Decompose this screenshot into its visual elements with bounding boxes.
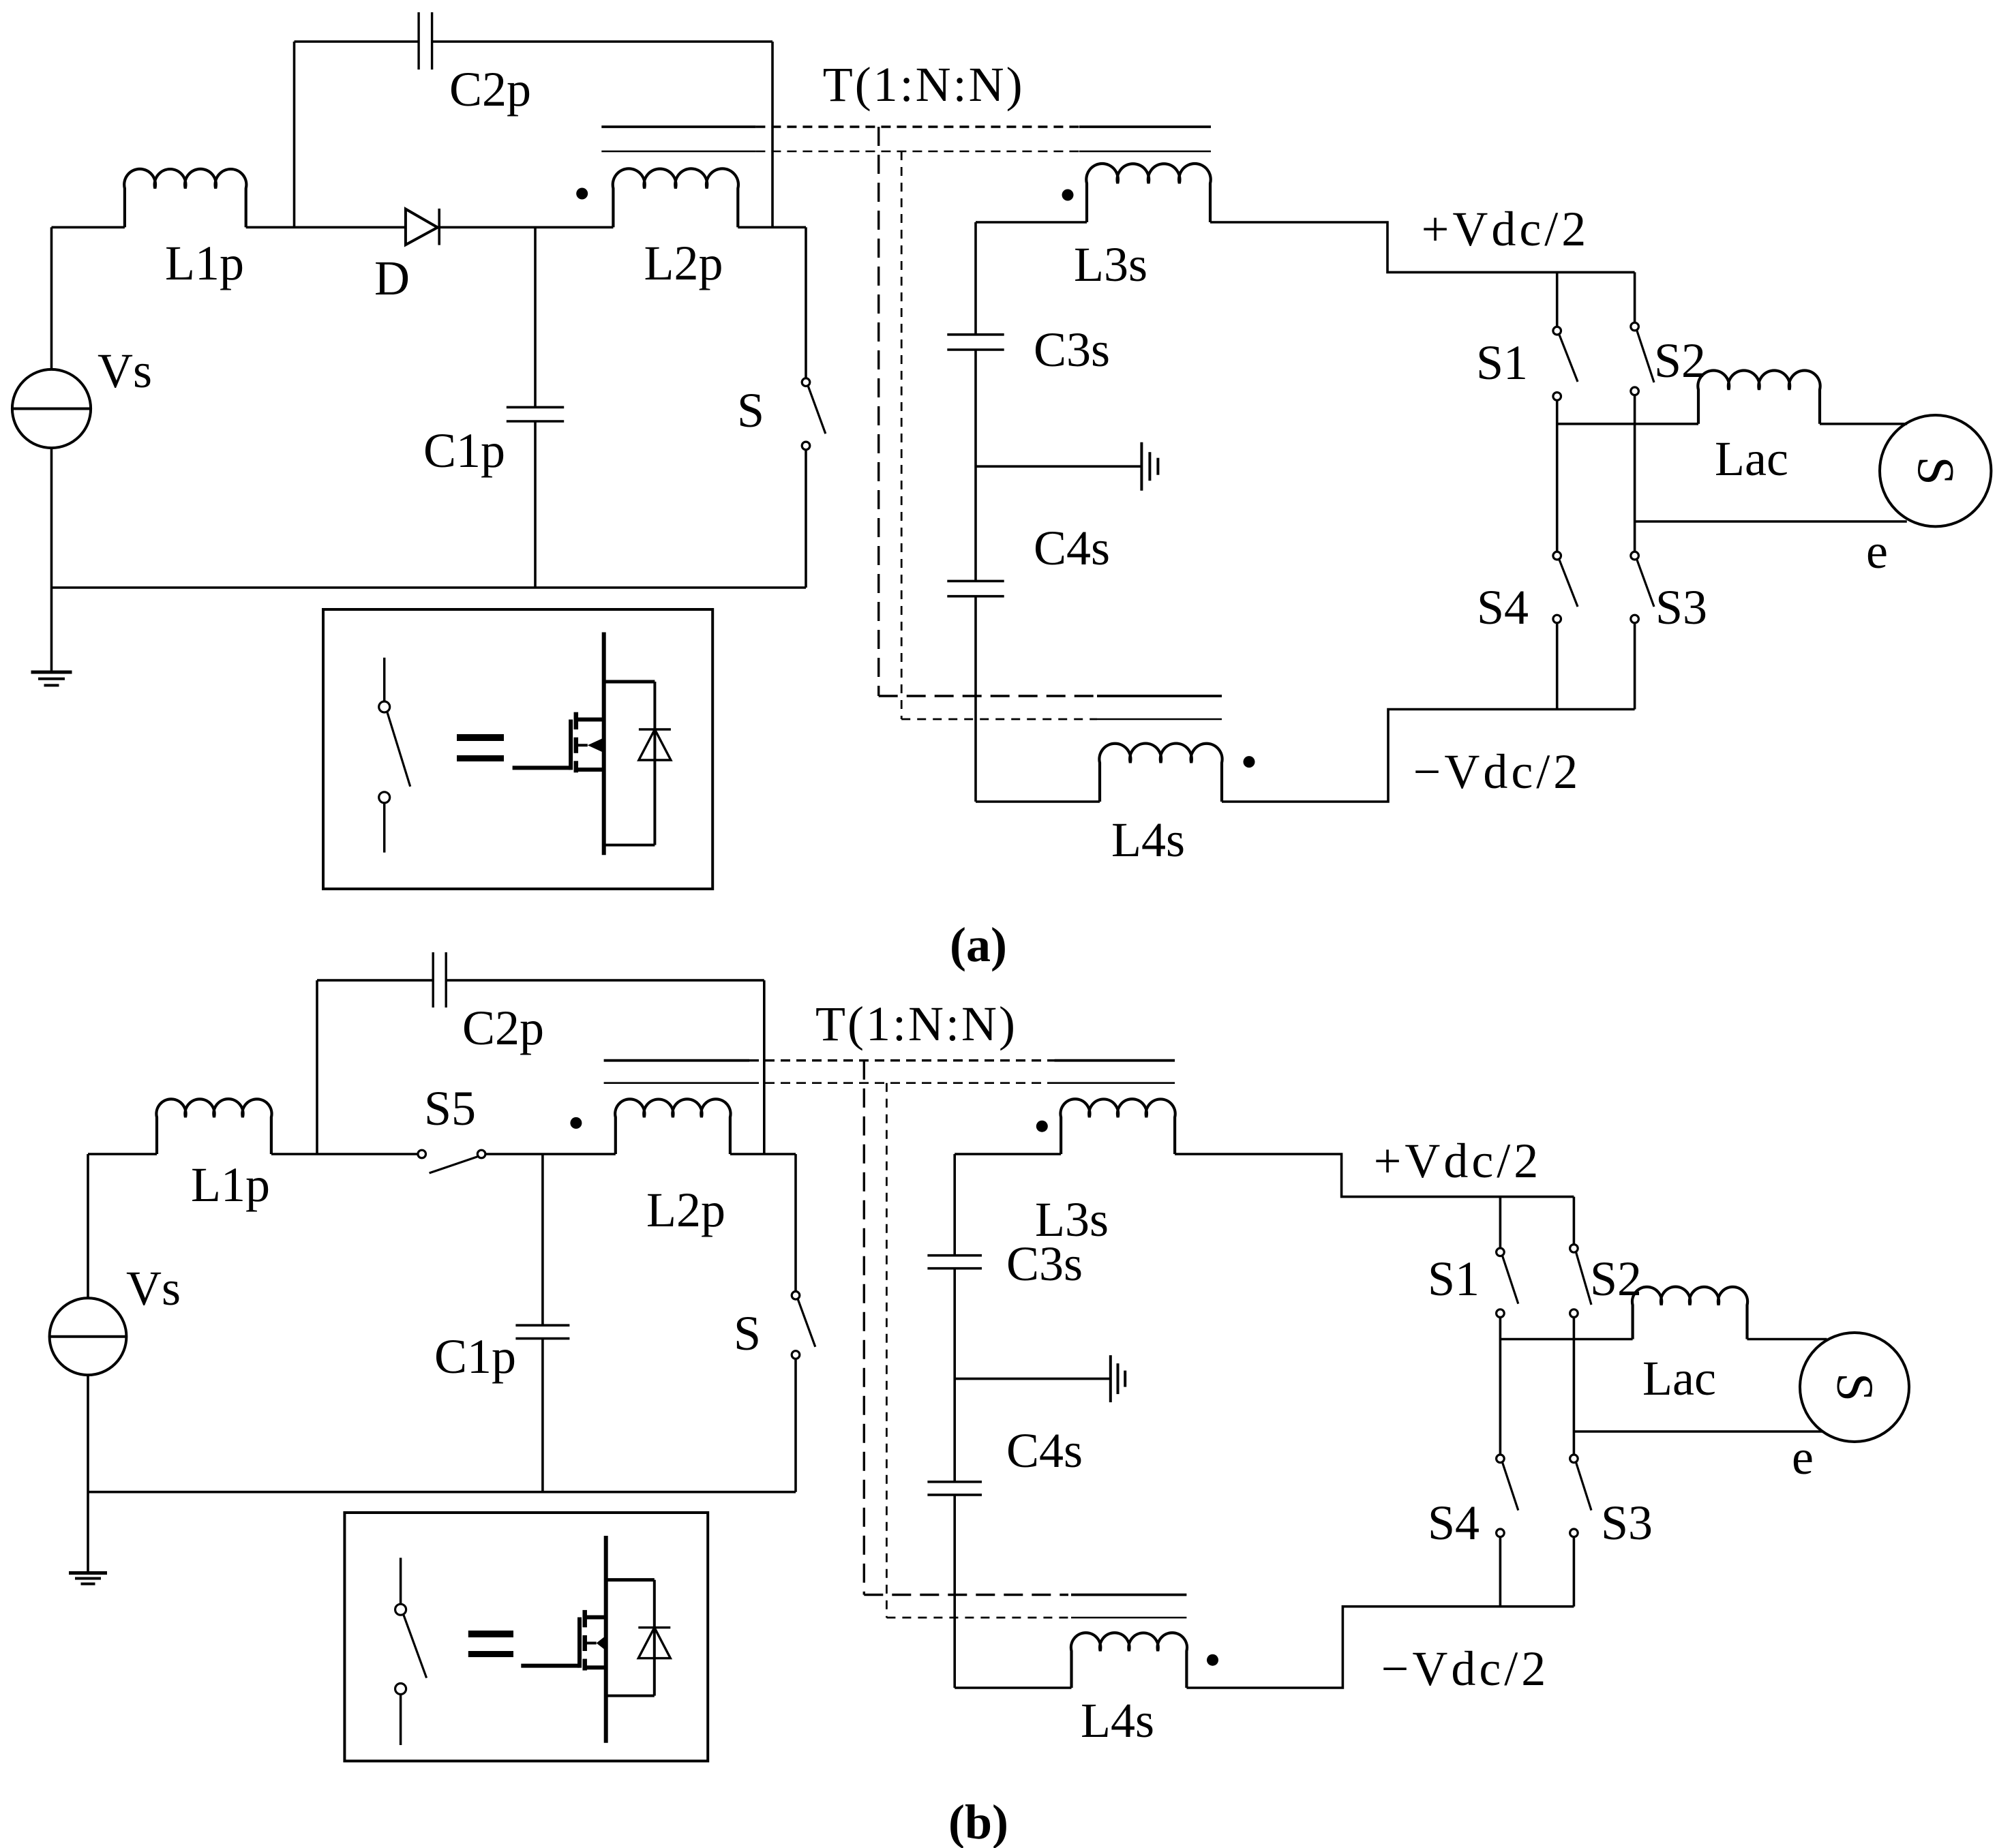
wire: L2p to S corner (b) — [730, 1153, 796, 1155]
wire: C2p branch up (b) — [316, 980, 318, 1154]
label S5 (b) — [424, 1081, 476, 1136]
wire: Vs branch top (b) — [87, 1154, 89, 1299]
capacitor C1p (b) — [515, 1325, 569, 1338]
label C3s (a) — [1034, 322, 1110, 377]
svg-text:+Vdc/2: +Vdc/2 — [1374, 1134, 1542, 1188]
svg-text:S: S — [737, 383, 764, 438]
label L1p (b) — [191, 1157, 270, 1212]
mosfet symbol (b) — [521, 1536, 605, 1743]
wire: Lac to source e (a) — [1820, 423, 1907, 425]
svg-text:−Vdc/2: −Vdc/2 — [1413, 744, 1582, 799]
capacitor C3s (b) — [927, 1256, 982, 1269]
equals sign (a) — [457, 734, 504, 761]
svg-text:C2p: C2p — [462, 1001, 544, 1055]
wire: left to L1p (a) — [52, 226, 125, 229]
label C1p (b) — [434, 1329, 516, 1384]
svg-text:(b): (b) — [948, 1795, 1008, 1848]
inductor Lac (a) — [1698, 370, 1820, 423]
capacitor C1p (a) — [507, 407, 564, 421]
body diode (b) — [606, 1580, 671, 1696]
wire: L1p to diode (a) — [246, 226, 406, 229]
svg-text:C3s: C3s — [1006, 1237, 1083, 1291]
wire: C3s to C4s (b) — [953, 1269, 956, 1482]
label Vs (a) — [97, 344, 152, 398]
svg-text:L2p: L2p — [644, 236, 723, 290]
inductor L4s (a) — [1099, 744, 1222, 802]
source e circle (b) — [1800, 1333, 1909, 1442]
wire: bottom to L4s (b) — [955, 1686, 1071, 1689]
dot: L4s polarity (a) — [1244, 756, 1255, 768]
label Lac (a) — [1715, 431, 1788, 486]
legend switch symbol (b) — [395, 1558, 427, 1745]
dot: L3s polarity (a) — [1062, 190, 1074, 201]
source Vs (a) — [12, 369, 91, 448]
coupling dashed vertical 1 (b) — [863, 1061, 865, 1595]
label L4s (b) — [1081, 1693, 1154, 1748]
wire: C3s to C4s (a) — [974, 350, 977, 581]
transformer core line lower (b) — [604, 1082, 1175, 1084]
L4s core line lower (b) — [886, 1617, 1186, 1619]
legend switch symbol (a) — [379, 658, 410, 853]
coupling dashed vertical 2 (a) — [901, 151, 903, 719]
label (a) — [950, 918, 1007, 972]
wire: bottom to L4s (a) — [976, 800, 1100, 803]
svg-text:e: e — [1866, 524, 1888, 579]
wire: ground stub (a) — [976, 465, 1141, 468]
label L4s (a) — [1111, 813, 1185, 867]
wire: C3s top to L3s (a) — [976, 221, 1087, 224]
switch S5 (b) — [418, 1150, 485, 1173]
L4s core line upper (a) — [879, 695, 1222, 697]
wire: diode to L2p (a) — [439, 226, 613, 229]
wire: C2p rail right (b) — [446, 979, 764, 982]
wire: C2p rail left (a) — [295, 40, 419, 43]
ground (b) — [69, 1573, 107, 1584]
dot: L3s polarity (b) — [1036, 1121, 1048, 1132]
svg-text:S3: S3 — [1601, 1496, 1653, 1550]
wire: C3s branch (a) — [974, 222, 977, 335]
label L3s (a) — [1074, 237, 1147, 292]
label S (a) — [737, 383, 764, 438]
switch S4 (a) — [1553, 551, 1578, 709]
wire: Lac to source e (b) — [1747, 1338, 1827, 1341]
label C2p (b) — [462, 1001, 544, 1055]
inductor L3s (b) — [1060, 1099, 1175, 1154]
svg-text:D: D — [374, 251, 410, 305]
legend box (a) — [323, 609, 712, 889]
wire: S1 to S4 leg (a) — [1556, 400, 1559, 551]
dot: L2p polarity (b) — [570, 1117, 582, 1129]
svg-text:S4: S4 — [1477, 580, 1529, 635]
wire: S2 to S3 leg (b) — [1573, 1317, 1576, 1455]
label S2 (b) — [1590, 1252, 1642, 1306]
svg-text:S4: S4 — [1428, 1496, 1480, 1550]
label L2p (a) — [644, 236, 723, 290]
transformer core line lower (a) — [601, 151, 1211, 153]
wire: S1 to S4 leg (b) — [1499, 1317, 1502, 1455]
ground (secondary midpoint) (b) — [1111, 1355, 1125, 1402]
inductor L3s (a) — [1086, 164, 1210, 222]
capacitor C4s (a) — [947, 581, 1004, 596]
label S3 (b) — [1601, 1496, 1653, 1550]
coupling dashed vertical 2 (b) — [886, 1083, 888, 1618]
capacitor C4s (b) — [927, 1482, 982, 1495]
label L3s (b) — [1035, 1192, 1109, 1247]
label C2p (a) — [449, 62, 531, 117]
svg-text:Lac: Lac — [1715, 431, 1788, 486]
wire: C4s to bottom (b) — [953, 1495, 956, 1688]
wire: Vs branch top (a) — [50, 227, 53, 369]
switch S3 (a) — [1631, 551, 1654, 709]
label Vs (b) — [126, 1261, 181, 1316]
equals sign (b) — [468, 1631, 513, 1657]
coupling dashed vertical 1 (a) — [877, 127, 880, 696]
svg-text:L1p: L1p — [191, 1157, 270, 1212]
body diode (a) — [604, 682, 671, 845]
legend box (b) — [344, 1513, 708, 1761]
wire: e bottom to bridge (a) — [1635, 520, 1907, 523]
label S3 (a) — [1655, 580, 1707, 635]
inductor L1p (b) — [156, 1099, 271, 1154]
label +Vdc/2 (a) — [1422, 202, 1590, 256]
svg-text:L3s: L3s — [1074, 237, 1147, 292]
switch S2 (a) — [1631, 272, 1654, 395]
label +Vdc/2 (b) — [1374, 1134, 1542, 1188]
label L2p (b) — [646, 1183, 725, 1237]
label -Vdc/2 (b) — [1381, 1641, 1550, 1696]
label T(1:N:N) (a) — [823, 57, 1025, 112]
label e (b) — [1792, 1430, 1814, 1485]
svg-text:C2p: C2p — [449, 62, 531, 117]
wire: S2 to S3 leg (a) — [1634, 395, 1636, 552]
svg-text:T(1:N:N): T(1:N:N) — [823, 57, 1025, 112]
inductor Lac (b) — [1632, 1287, 1747, 1339]
wire: bottom rail (b) — [88, 1491, 796, 1494]
capacitor C1p branch wire top (a) — [534, 227, 537, 407]
transformer core line upper (b) — [604, 1059, 1175, 1062]
switch S (a) — [802, 227, 826, 588]
svg-text:−Vdc/2: −Vdc/2 — [1381, 1641, 1550, 1696]
label S4 (a) — [1477, 580, 1529, 635]
wire: ground stub (b) — [955, 1378, 1111, 1380]
svg-text:C4s: C4s — [1006, 1423, 1083, 1478]
capacitor C2p (b) — [433, 952, 446, 1008]
svg-text:Vs: Vs — [97, 344, 152, 398]
source e circle (a) — [1880, 415, 1991, 526]
wire: C1p to bottom (a) — [534, 421, 537, 588]
label -Vdc/2 (a) — [1413, 744, 1582, 799]
mosfet symbol (a) — [513, 633, 604, 855]
L4s core line lower (a) — [901, 718, 1222, 721]
label S4 (b) — [1428, 1496, 1480, 1550]
wire: L4s to -Vdc rail (b) — [1186, 1607, 1574, 1688]
switch S1 (b) — [1497, 1197, 1518, 1318]
svg-text:Vs: Vs — [126, 1261, 181, 1316]
switch S3 (b) — [1570, 1455, 1591, 1607]
label T(1:N:N) (b) — [815, 997, 1017, 1051]
label e (a) — [1866, 524, 1888, 579]
source Vs (b) — [50, 1298, 127, 1375]
L4s core line upper (b) — [864, 1594, 1186, 1596]
svg-text:L4s: L4s — [1081, 1693, 1154, 1748]
label (b) — [948, 1795, 1008, 1848]
wire: left to L1p (b) — [88, 1153, 157, 1155]
svg-text:S3: S3 — [1655, 580, 1707, 635]
switch S1 (a) — [1553, 272, 1578, 400]
label Lac (b) — [1642, 1351, 1716, 1406]
wire: e bottom to bridge (b) — [1574, 1430, 1822, 1433]
svg-text:+Vdc/2: +Vdc/2 — [1422, 202, 1590, 256]
wire: Lac junction (b) — [1500, 1338, 1632, 1341]
wire: C2p rail right (a) — [432, 40, 772, 43]
inductor L1p (a) — [124, 169, 246, 228]
label C3s (b) — [1006, 1237, 1083, 1291]
svg-text:S1: S1 — [1476, 335, 1528, 390]
wire: L3s to step (b) — [1175, 1154, 1574, 1197]
inductor L2p (b) — [615, 1099, 730, 1154]
label L1p (a) — [165, 236, 244, 290]
switch S4 (b) — [1497, 1455, 1518, 1607]
wire: Lac junction (a) — [1557, 423, 1698, 425]
capacitor C3s (a) — [947, 335, 1004, 350]
svg-text:L1p: L1p — [165, 236, 244, 290]
svg-text:S: S — [734, 1306, 761, 1361]
inductor L4s (b) — [1071, 1633, 1187, 1688]
wire: S5 to L2p (b) — [485, 1153, 616, 1155]
label S1 (b) — [1428, 1252, 1480, 1306]
svg-text:e: e — [1792, 1430, 1814, 1485]
dot: L4s polarity (b) — [1207, 1654, 1218, 1666]
diode D (a) — [406, 209, 439, 245]
wire: bottom rail (a) — [52, 586, 807, 589]
wire: C2p rail left (b) — [317, 979, 433, 982]
wire: C2p loop down (b) — [763, 980, 766, 1154]
ground (secondary midpoint) (a) — [1141, 442, 1158, 491]
inductor L2p (a) — [613, 168, 738, 227]
dot: L2p polarity (a) — [576, 188, 588, 200]
svg-text:C3s: C3s — [1034, 322, 1110, 377]
ground (a) — [31, 672, 72, 685]
switch S (b) — [792, 1154, 815, 1492]
wire: C3s branch (b) — [953, 1154, 956, 1256]
svg-text:T(1:N:N): T(1:N:N) — [815, 997, 1017, 1051]
svg-text:C4s: C4s — [1034, 521, 1110, 575]
capacitor C2p (a) — [419, 12, 432, 70]
label S (b) — [734, 1306, 761, 1361]
label C4s (a) — [1034, 521, 1110, 575]
wire: L1p to S5 (b) — [271, 1153, 418, 1155]
label S1 (a) — [1476, 335, 1528, 390]
transformer core line upper (a) — [601, 125, 1211, 128]
svg-text:(a): (a) — [950, 918, 1007, 972]
svg-text:S: S — [1907, 457, 1964, 485]
wire: L2p to S corner (a) — [738, 226, 806, 229]
svg-text:S: S — [1826, 1373, 1883, 1402]
capacitor C1p branch wire top (b) — [541, 1154, 544, 1325]
svg-text:C1p: C1p — [434, 1329, 516, 1384]
wire: L4s to -Vdc rail (a) — [1222, 710, 1635, 802]
wire: C3s top to L3s (b) — [955, 1153, 1061, 1155]
wire: C1p to bottom (b) — [541, 1339, 544, 1492]
svg-text:C1p: C1p — [423, 423, 505, 478]
label C1p (a) — [423, 423, 505, 478]
svg-text:L4s: L4s — [1111, 813, 1185, 867]
label C4s (b) — [1006, 1423, 1083, 1478]
svg-text:S5: S5 — [424, 1081, 476, 1136]
wire: L3s to step (a) — [1210, 222, 1635, 272]
wire: Vs to ground (b) — [87, 1375, 89, 1573]
label S2 (a) — [1654, 333, 1706, 388]
svg-text:Lac: Lac — [1642, 1351, 1716, 1406]
switch S2 (b) — [1570, 1197, 1591, 1318]
wire: Vs to ground (a) — [50, 448, 53, 672]
label D (a) — [374, 251, 410, 305]
wire: C4s to bottom (a) — [974, 596, 977, 802]
svg-text:L2p: L2p — [646, 1183, 725, 1237]
wire: C2p loop down (a) — [771, 42, 774, 227]
wire: C2p branch up (a) — [293, 42, 296, 227]
svg-text:S1: S1 — [1428, 1252, 1480, 1306]
